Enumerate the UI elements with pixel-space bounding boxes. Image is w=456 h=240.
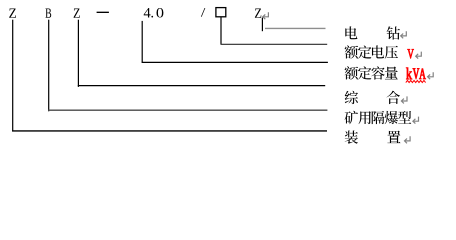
vertical from square (220, 17, 222, 44)
code letter B (flameproof) (45, 9, 51, 18)
red V unit (407, 49, 413, 58)
label: comprehensive (zong he) (345, 91, 358, 104)
label: rated voltage (345, 45, 359, 58)
vertical from B (48, 20, 50, 112)
digit 4 (144, 8, 151, 17)
label: mine flameproof type (345, 111, 358, 124)
leader to comprehensive (78, 85, 325, 87)
dash (97, 12, 109, 13)
label: electric drill (dian zuan) (345, 26, 357, 39)
label: rated capacity (345, 66, 359, 79)
label: device (zhuang zhi) (345, 130, 358, 143)
leader to electric drill (265, 27, 326, 29)
code letter Z (drill) (255, 9, 261, 18)
vertical from second Z (77, 20, 79, 87)
leader to rated voltage (221, 43, 328, 45)
digit 0 (157, 8, 164, 17)
return mark after code (263, 12, 269, 19)
leader to rated capacity (142, 61, 328, 63)
slash (201, 8, 205, 17)
leader to device (12, 130, 327, 132)
spellcheck squiggle under kVA (406, 80, 426, 82)
vertical from third Z (261, 18, 263, 32)
decimal point (151, 16, 153, 18)
code letter Z (comprehensive) (74, 9, 80, 18)
vertical from 4.0 (141, 21, 143, 62)
leader to mine flameproof (48, 109, 327, 111)
placeholder square (voltage) (216, 8, 226, 17)
red kVA unit (406, 68, 412, 80)
code letter Z (device) (9, 9, 16, 18)
vertical from first Z (12, 20, 14, 132)
